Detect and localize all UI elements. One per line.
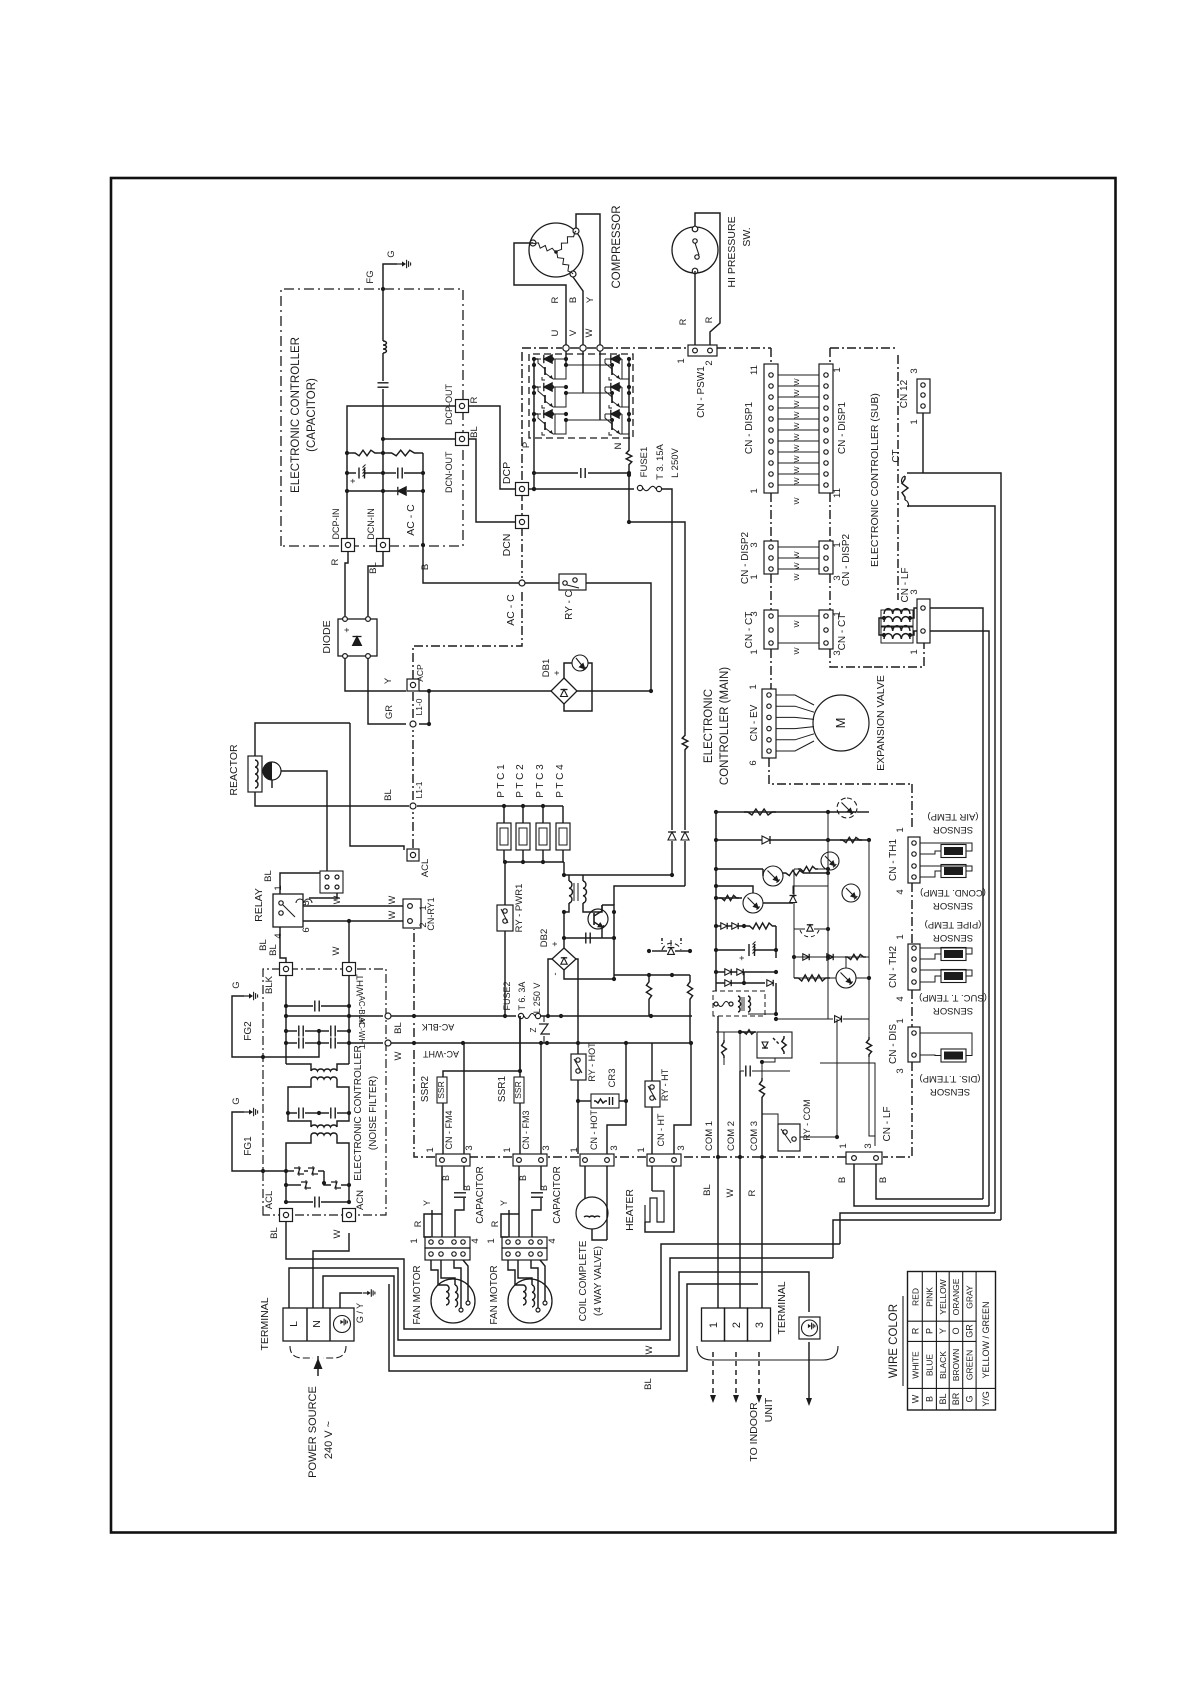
relay contact2: [279, 911, 283, 915]
svg-text:DCN-IN: DCN-IN: [366, 508, 376, 540]
main border right edge4: [769, 758, 912, 784]
pin: [714, 1002, 718, 1006]
core2: [743, 997, 745, 1011]
connector CN-DISP2 left: [764, 541, 778, 574]
svg-text:R: R: [490, 1220, 500, 1227]
node: [792, 955, 796, 959]
svg-text:CN - EV: CN - EV: [749, 704, 760, 741]
pin: [529, 1240, 533, 1244]
wire Y: [508, 1210, 510, 1237]
node: [624, 1099, 628, 1103]
wire R psw1: [694, 271, 696, 345]
wire disp1: [778, 484, 819, 486]
svg-text:1: 1: [895, 827, 906, 832]
svg-text:11: 11: [749, 365, 760, 375]
connector CN-LF bottom: [846, 1152, 882, 1164]
wire R psw2: [695, 213, 720, 345]
table col line: [908, 1340, 977, 1342]
choke coil 2a: [311, 1125, 337, 1127]
wire: [763, 902, 793, 904]
electronic controller (capacitor) dashed box: [281, 289, 463, 546]
node: [559, 1014, 563, 1018]
pin 1: [517, 1158, 522, 1163]
svg-text:BLACK: BLACK: [938, 1351, 948, 1379]
wire: [775, 983, 777, 1014]
resistor in supply line B: [682, 733, 688, 752]
svg-text:(CAPACITOR): (CAPACITOR): [306, 378, 318, 452]
node: [381, 471, 385, 475]
wire: [337, 1079, 349, 1113]
pin: [769, 556, 773, 560]
wire rb12b: [818, 868, 828, 870]
svg-text:FUSE2: FUSE2: [502, 981, 512, 1010]
SSR box SSR1: [514, 1077, 524, 1103]
pin: [461, 1240, 465, 1244]
wire B phase: [573, 277, 583, 345]
contact: [503, 919, 507, 923]
pin: [921, 629, 925, 633]
expansion valve motor: [813, 695, 869, 751]
transformer blob a: [738, 996, 741, 1012]
wire R phase: [514, 243, 566, 345]
transistor Qb6: [836, 968, 856, 988]
inductor L-FG: [383, 341, 387, 353]
transistor Qb2: [763, 866, 783, 886]
svg-text:2: 2: [731, 1322, 743, 1328]
table col line: [908, 1387, 996, 1389]
wire AC-C rail: [422, 453, 424, 545]
relay RY-HT: [645, 1081, 660, 1107]
wire sensor a: [920, 866, 972, 871]
svg-text:B: B: [518, 1175, 528, 1181]
svg-text:ORANGE: ORANGE: [951, 1278, 961, 1315]
wire: [534, 358, 538, 360]
PTC thermistor PTC1: [497, 823, 511, 850]
pin 1: [852, 1156, 857, 1161]
svg-text:SSR: SSR: [513, 1081, 523, 1098]
node: [826, 955, 830, 959]
svg-text:T 6. 3A: T 6. 3A: [517, 982, 527, 1011]
table row line: [921, 1272, 923, 1411]
svg-text:W: W: [792, 444, 801, 452]
svg-text:CN - LF: CN - LF: [882, 1107, 893, 1142]
wire reactor top: [255, 723, 350, 756]
svg-text:SSR2: SSR2: [420, 1076, 431, 1103]
pin: [366, 617, 371, 622]
wire COM3 low: [761, 1157, 763, 1308]
svg-text:SENSOR: SENSOR: [933, 932, 973, 943]
resistor Rb12: [798, 866, 818, 871]
pin: [824, 472, 828, 476]
wire: [794, 928, 805, 930]
wire: [761, 1062, 763, 1078]
wire DCP-OUT rail: [347, 406, 455, 539]
capacitor NF row 1043b: [330, 1038, 332, 1049]
wire: [365, 472, 383, 474]
node: [539, 1041, 543, 1045]
diode Db10: [827, 954, 833, 960]
svg-text:RED: RED: [911, 1288, 921, 1306]
blade: [648, 1086, 656, 1100]
pin 1: [408, 904, 413, 909]
wire: [857, 811, 869, 813]
svg-text:FAN MOTOR: FAN MOTOR: [489, 1265, 500, 1324]
fuse FUSE2: [518, 1013, 523, 1018]
wire: [286, 1135, 311, 1202]
node: [738, 1155, 742, 1159]
wire heater a: [651, 1166, 653, 1191]
pin: [767, 715, 771, 719]
svg-text:R: R: [550, 296, 561, 303]
wire FG2 out: [232, 996, 263, 1057]
diode Db6: [737, 969, 743, 975]
node: [617, 385, 621, 389]
wire PTC3 top: [542, 806, 544, 823]
svg-text:G: G: [965, 1395, 975, 1402]
wire: [337, 1064, 349, 1071]
node: [317, 1041, 321, 1045]
main border right lower2: [911, 883, 913, 944]
heater element: [645, 1191, 664, 1222]
node: [461, 1041, 465, 1045]
diode Db3: [721, 923, 727, 929]
svg-text:1: 1: [708, 1322, 720, 1328]
svg-text:(COND. TEMP): (COND. TEMP): [920, 887, 986, 898]
svg-text:4: 4: [470, 1238, 481, 1243]
wire com3 to rycom: [762, 1100, 778, 1124]
pin 2: [408, 919, 413, 924]
connector fan 4p: [425, 1237, 470, 1248]
resistor Rb4: [719, 895, 739, 900]
node: [610, 418, 614, 422]
wire HT pin3 feed: [674, 1043, 691, 1154]
wire rail 975: [614, 974, 690, 976]
wire: [321, 1201, 349, 1203]
resistor Rs2: [687, 979, 692, 1002]
pin: [767, 693, 771, 697]
node AC-WHT border: [385, 1040, 391, 1046]
wire power stem: [317, 1356, 319, 1360]
wire CN12 down: [922, 413, 924, 473]
wire: [315, 1030, 329, 1032]
wire PTC1 bottom: [503, 850, 505, 862]
diode Db9: [803, 954, 809, 960]
wire LF right a: [930, 608, 983, 1199]
svg-text:1: 1: [636, 1147, 647, 1152]
node: [347, 1004, 351, 1008]
node: [742, 924, 746, 928]
wire rail vert rt: [827, 812, 829, 1019]
wire ssr top SSR2: [443, 1071, 520, 1077]
SSR box SSR2: [437, 1077, 447, 1103]
svg-text:W: W: [911, 1394, 921, 1403]
capacitor NF1: [314, 1001, 316, 1012]
capacitor NF mid b: [330, 1108, 332, 1119]
node: [627, 471, 631, 475]
reactor circle: [263, 762, 281, 780]
wire disp2: [778, 546, 819, 548]
node: [427, 722, 431, 726]
wire R: [501, 1214, 519, 1237]
node: [502, 804, 506, 808]
term: [543, 1301, 547, 1305]
wire DCP to FUSE1: [528, 488, 634, 490]
table row line: [948, 1272, 950, 1411]
sub border left c: [829, 574, 831, 610]
ground terminal box: [799, 1317, 820, 1339]
node: [532, 418, 536, 422]
wire CR3 to pin3: [607, 1101, 626, 1154]
wire heater b: [645, 1166, 674, 1232]
svg-text:DCN: DCN: [501, 534, 513, 557]
terminal ACN: [343, 1209, 356, 1222]
wire phase mid: [566, 364, 612, 366]
wire: [382, 353, 384, 381]
wire Y: [345, 656, 406, 691]
pin: [824, 567, 828, 571]
pin: [824, 439, 828, 443]
wire opto down: [762, 1058, 775, 1062]
wire ct return a: [840, 1213, 995, 1244]
wire RY-HOT down: [577, 1080, 579, 1154]
svg-text:B: B: [420, 564, 431, 570]
wire z2: [304, 1170, 308, 1172]
svg-text:B: B: [462, 1185, 472, 1191]
arrow power: [314, 1358, 323, 1369]
wire: [407, 490, 423, 492]
dashed arrow 1: [712, 1352, 714, 1395]
node: [550, 385, 554, 389]
pin 3: [605, 1158, 610, 1163]
wire: [534, 413, 538, 415]
svg-text:U: U: [550, 329, 561, 336]
blade: [501, 909, 508, 923]
pin: [824, 406, 828, 410]
opto coupler box: [757, 1032, 792, 1058]
node: [826, 838, 830, 842]
sensor thermistor (PIPE TEMP): [941, 948, 966, 961]
svg-text:TO INDOOR: TO INDOOR: [748, 1402, 760, 1462]
wire bundle P2 (L): [289, 1258, 833, 1340]
sensor thermistor (COND. TEMP): [941, 865, 966, 878]
svg-text:+: +: [552, 670, 562, 675]
svg-text:1: 1: [486, 1238, 497, 1243]
wire: [752, 1070, 790, 1072]
contact: [650, 1085, 654, 1089]
pin: [769, 395, 773, 399]
blade: [781, 1129, 791, 1143]
wire emitter to rail: [553, 420, 566, 434]
svg-text:PINK: PINK: [925, 1287, 935, 1307]
svg-text:V: V: [568, 329, 579, 336]
pin 3: [672, 1158, 677, 1163]
svg-text:REACTOR: REACTOR: [228, 744, 240, 796]
svg-text:W: W: [792, 400, 801, 408]
svg-text:RY - HOT: RY - HOT: [587, 1042, 597, 1082]
svg-text:1: 1: [748, 684, 759, 689]
svg-text:Y: Y: [585, 296, 596, 303]
wire z3: [318, 1170, 324, 1172]
node: [521, 860, 525, 864]
resistor R-b: [388, 450, 418, 456]
table row line: [962, 1272, 964, 1411]
wire choke jumper: [879, 618, 884, 635]
main border right edge2: [770, 574, 772, 610]
wire reactor circle to conn: [281, 771, 327, 871]
wire to RY-HT: [651, 1043, 653, 1081]
svg-text:SENSOR: SENSOR: [933, 1005, 973, 1016]
svg-text:3: 3: [676, 1145, 687, 1150]
capacitor C-c: [397, 468, 399, 479]
svg-text:3: 3: [909, 368, 920, 373]
resistor R-a: [352, 450, 378, 456]
node FG2 border: [261, 1055, 265, 1059]
compressor motor circle: [529, 223, 583, 277]
wire AC-WHT: [391, 1042, 691, 1044]
svg-text:1: 1: [909, 649, 920, 654]
inverter dashed box: [529, 354, 633, 438]
svg-text:1: 1: [569, 1147, 580, 1152]
transformer core a: [573, 883, 575, 901]
node: [908, 633, 912, 637]
node: [284, 1041, 288, 1045]
svg-text:4: 4: [895, 996, 906, 1001]
wire AC-BLK2: [541, 1015, 692, 1017]
switch blade: [695, 243, 699, 255]
reactor coil: [255, 760, 258, 788]
svg-text:W: W: [792, 378, 801, 386]
node: [503, 1014, 507, 1018]
wire ct: [778, 642, 819, 644]
terminal block cell 2: [725, 1308, 748, 1341]
main border right lower: [911, 784, 913, 827]
node U on border: [563, 345, 569, 351]
svg-text:BL: BL: [263, 870, 274, 882]
wire: [675, 950, 690, 952]
svg-text:CN - TH2: CN - TH2: [888, 946, 899, 988]
main border top e: [717, 347, 771, 349]
fan winding b: [532, 1285, 535, 1307]
pin: [769, 428, 773, 432]
svg-text:DB1: DB1: [541, 659, 552, 677]
table row line: [975, 1272, 977, 1411]
node AC-C on border: [519, 580, 525, 586]
node: [627, 357, 631, 361]
svg-text:W: W: [792, 647, 801, 655]
node: [347, 1041, 351, 1045]
wire rail3: [716, 897, 742, 899]
capacitor fan 2: [531, 1192, 543, 1194]
wire: [288, 1112, 297, 1114]
wire COM2 low: [739, 1157, 741, 1308]
pin: [824, 628, 828, 632]
node: [521, 804, 525, 808]
term: [536, 1308, 540, 1312]
connector CN-CT right: [819, 610, 833, 649]
svg-text:CN-RY1: CN-RY1: [426, 897, 436, 930]
node: [714, 924, 718, 928]
pin: [729, 1002, 733, 1006]
wire emitter2: [620, 393, 629, 407]
svg-text:AC-BLK: AC-BLK: [422, 1022, 455, 1032]
node: [610, 363, 614, 367]
wire: [648, 1002, 650, 1016]
wire COM1 low: [717, 1157, 719, 1308]
node: [322, 1181, 326, 1185]
node: [826, 871, 830, 875]
wire B AC-C: [423, 545, 519, 583]
node: [612, 936, 616, 940]
dash mark2: [680, 938, 682, 944]
wire ct return b: [833, 1220, 1001, 1258]
node: [564, 363, 568, 367]
cell divider2: [329, 1308, 331, 1341]
connector CN 12: [917, 379, 930, 413]
svg-text:ELECTRONIC CONTROLLER: ELECTRONIC CONTROLLER: [353, 1045, 364, 1181]
transistor Qb3: [743, 893, 763, 913]
svg-text:CN - DISP1: CN - DISP1: [837, 401, 848, 454]
dashed border DCN to AC-C node: [521, 528, 523, 578]
node: [649, 1014, 653, 1018]
wire blob bottom: [748, 1013, 776, 1015]
dash mark: [661, 938, 663, 944]
svg-text:4: 4: [895, 889, 906, 894]
resistor Rb6: [845, 954, 866, 959]
wire z6: [341, 1184, 349, 1186]
transformer box dashed: [713, 991, 765, 1016]
svg-text:R: R: [469, 396, 480, 403]
node: [550, 412, 554, 416]
diode Db4: [732, 923, 738, 929]
wire mot4: [540, 1260, 545, 1301]
svg-text:CN - HT: CN - HT: [656, 1113, 666, 1146]
wire right rail: [348, 975, 350, 1064]
wire: [286, 1201, 313, 1203]
node: [627, 391, 631, 395]
term: [459, 1308, 463, 1312]
pin: [769, 384, 773, 388]
current transformer CT: [902, 476, 908, 500]
choke box a: [881, 610, 913, 626]
svg-text:P: P: [925, 1328, 935, 1334]
fan winding b: [455, 1285, 458, 1307]
main border bottom5: [414, 1049, 435, 1157]
wire: [613, 912, 615, 938]
node: [564, 357, 568, 361]
node: [610, 391, 614, 395]
svg-text:DCN-OUT: DCN-OUT: [444, 451, 454, 493]
wire: [755, 949, 776, 951]
wire N rail: [628, 358, 630, 448]
wire acl loop: [350, 723, 404, 850]
svg-text:ELECTRONIC CONTROLLER: ELECTRONIC CONTROLLER: [290, 337, 302, 493]
node: [627, 520, 631, 524]
svg-text:6: 6: [301, 927, 312, 932]
pin: [769, 406, 773, 410]
pin: [769, 483, 773, 487]
svg-text:POWER SOURCE: POWER SOURCE: [307, 1386, 319, 1478]
svg-text:L1-1: L1-1: [414, 781, 424, 798]
wire DB1 top: [564, 663, 572, 678]
capacitor fan 1: [454, 1192, 466, 1194]
wire GR: [368, 656, 406, 724]
wire: [337, 1030, 349, 1032]
wire: [337, 1135, 349, 1202]
svg-text:ELECTRONIC CONTROLLER (SUB): ELECTRONIC CONTROLLER (SUB): [869, 393, 881, 567]
wire choke to pin2: [910, 631, 917, 635]
wire: [288, 1079, 311, 1113]
MOSFET with body diode: [662, 943, 681, 950]
